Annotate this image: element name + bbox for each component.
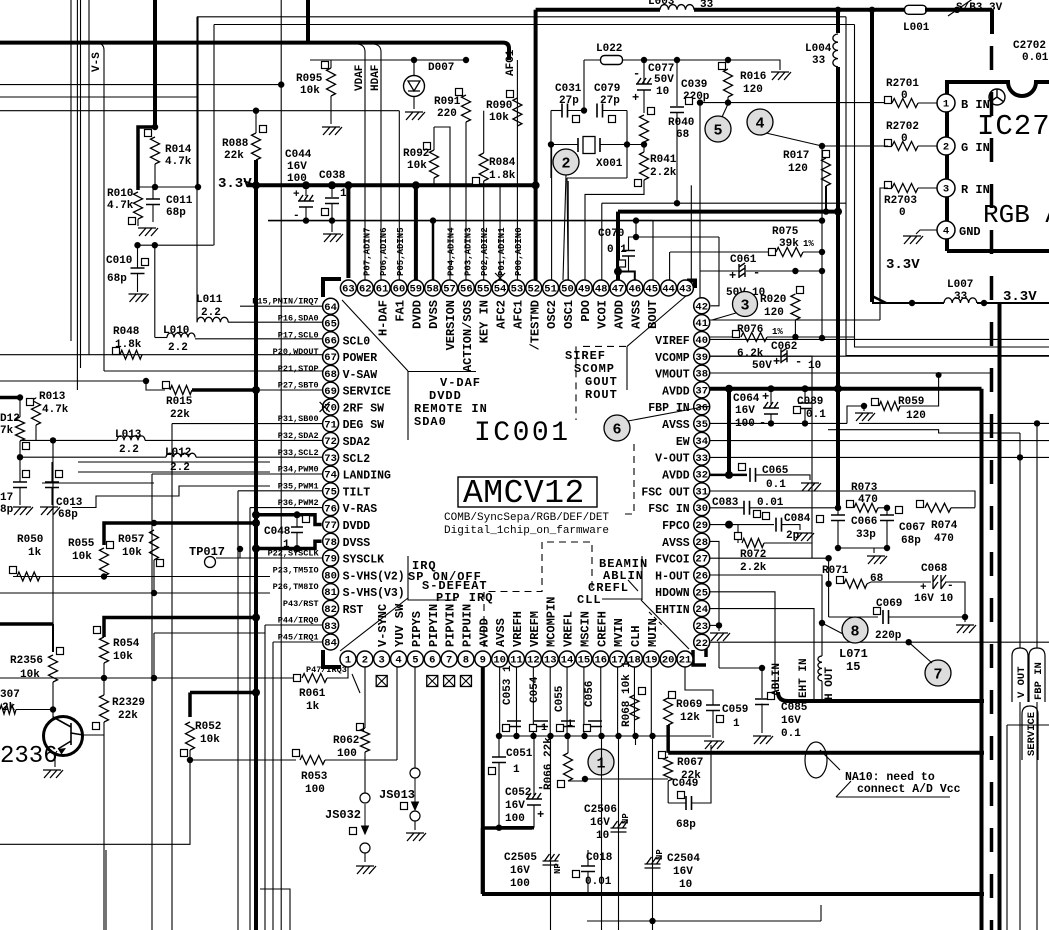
pin 56	[458, 280, 474, 296]
svg-text:2: 2	[561, 156, 570, 173]
svg-text:16V: 16V	[735, 405, 755, 417]
wire C066 bottom	[837, 521, 839, 549]
wire pin5 down	[414, 667, 416, 768]
resistor R084	[479, 153, 488, 181]
capacitor C066	[831, 515, 845, 521]
svg-text:-: -	[795, 355, 802, 369]
ground under C038	[323, 234, 343, 242]
ground IC27 pin4	[903, 236, 923, 244]
wire pin44 line	[670, 251, 718, 253]
wire x635 down	[635, 736, 637, 745]
wire net H-line y24	[214, 24, 855, 26]
capacitor C064	[763, 402, 779, 414]
junction x822 rail	[819, 217, 825, 223]
svg-text:69: 69	[324, 386, 337, 398]
no-connect X pin54	[495, 273, 505, 283]
wire AVSS rail y736	[499, 735, 711, 737]
junction G-IN x822	[819, 143, 825, 149]
svg-text:64: 64	[324, 302, 337, 314]
pin 25	[694, 584, 710, 600]
svg-text:1: 1	[340, 188, 347, 200]
wire C017 top	[19, 457, 21, 482]
leader NA10	[820, 750, 840, 770]
resistor R068	[630, 695, 639, 720]
svg-text:72: 72	[324, 436, 337, 448]
pin 9	[475, 651, 491, 667]
pin 17	[610, 651, 626, 667]
junction rail x636	[633, 217, 639, 223]
wire x190 down	[0, 760, 190, 844]
svg-text:10k: 10k	[20, 669, 40, 681]
resistor R092	[430, 150, 439, 178]
pin 42	[694, 298, 710, 314]
svg-text:P01,ADIN1: P01,ADIN1	[497, 227, 507, 276]
svg-text:C083: C083	[712, 497, 739, 509]
svg-text:120: 120	[906, 410, 926, 422]
svg-text:39: 39	[695, 352, 708, 364]
svg-text:V-SAW: V-SAW	[343, 369, 378, 382]
wire C038 gnd stub	[331, 221, 333, 232]
svg-text:VDAF: VDAF	[354, 65, 366, 91]
svg-text:R020: R020	[760, 294, 786, 306]
no-connect X pin70	[320, 402, 330, 412]
svg-text:R048: R048	[113, 326, 140, 338]
pin 15	[576, 651, 592, 667]
junction x822 bottom	[819, 335, 825, 341]
wire 3.3V to L007	[872, 302, 944, 304]
wire C011 top	[152, 187, 154, 199]
wire D007 bottom	[413, 97, 415, 110]
svg-text:EHTIN: EHTIN	[655, 604, 690, 617]
wire pin29 FPCO stub	[710, 524, 729, 526]
thick vertical x155	[153, 0, 157, 127]
svg-text:0.1: 0.1	[781, 728, 801, 740]
svg-text:50V: 50V	[654, 74, 674, 86]
wire to R2329	[103, 678, 105, 695]
pin 65	[323, 315, 339, 331]
wire X001 left	[551, 144, 578, 146]
wire net x854 to y347	[855, 25, 1049, 348]
junction y245 b	[152, 242, 158, 248]
thick 3V rail y10 mid	[694, 8, 906, 12]
svg-text:P32,SDA2: P32,SDA2	[278, 431, 319, 441]
callout 8	[842, 617, 868, 643]
jumper X-box pin 8	[460, 676, 471, 687]
callout 2	[553, 149, 579, 175]
resistor R059	[879, 402, 900, 411]
svg-text:40: 40	[695, 335, 708, 347]
junction y423 x1037	[1034, 420, 1040, 426]
connector pin 2 G IN	[937, 137, 955, 155]
wire y237 to pin42	[636, 236, 719, 238]
ground emitter Q2336	[43, 770, 63, 778]
wire C018 top	[587, 850, 589, 866]
pin 70	[323, 399, 339, 415]
wire pin39 left	[710, 355, 781, 357]
wire R075 left	[718, 251, 772, 253]
svg-text:PIPYIN: PIPYIN	[427, 604, 441, 647]
svg-text:LANDING: LANDING	[343, 470, 391, 483]
terminal square R088	[260, 126, 267, 133]
junction x700	[697, 99, 703, 105]
terminal square R040	[648, 108, 655, 115]
junction R020 R076	[792, 334, 798, 340]
wire R057 bottom	[153, 560, 155, 593]
svg-text:1k: 1k	[28, 547, 42, 559]
svg-text:78: 78	[324, 537, 337, 549]
svg-text:L004: L004	[805, 43, 832, 55]
svg-text:VIREF: VIREF	[655, 335, 690, 348]
capacitor C054	[534, 721, 548, 727]
pin 38	[694, 365, 710, 381]
wire gnd riser	[847, 406, 864, 423]
wire pin30 FSC IN line	[710, 507, 744, 509]
junction y187 a	[152, 184, 158, 190]
svg-text:C051: C051	[506, 748, 533, 760]
wire L012 left	[20, 456, 166, 458]
wire R013 bottom	[35, 425, 37, 440]
resistor R076	[741, 333, 767, 342]
terminal square C066	[817, 516, 824, 523]
junction y548 b	[884, 545, 890, 551]
svg-text:+: +	[729, 269, 736, 283]
junction rail	[598, 733, 604, 739]
junction rail x433	[430, 217, 436, 223]
svg-text:10: 10	[493, 655, 506, 667]
svg-text:10: 10	[596, 830, 609, 842]
svg-text:68p: 68p	[58, 509, 78, 521]
pin 37	[694, 382, 710, 398]
svg-text:DVDD: DVDD	[343, 520, 371, 533]
svg-text:L007: L007	[947, 279, 973, 291]
capacitor C011	[146, 199, 160, 205]
pin 2	[357, 651, 373, 667]
wire y709	[16, 709, 53, 711]
wire L022 left	[584, 59, 601, 61]
svg-text:3.3V: 3.3V	[886, 257, 920, 273]
pin 75	[323, 483, 339, 499]
wire HDOWN drop	[710, 592, 775, 692]
svg-text:2.2: 2.2	[168, 342, 188, 354]
wire pin64 line	[240, 305, 323, 307]
svg-text:47: 47	[612, 284, 625, 296]
wire C031 left	[551, 110, 562, 112]
junction C044 bus	[302, 181, 310, 189]
svg-text:S-VHS(V3): S-VHS(V3)	[343, 587, 405, 600]
wire C089 top	[804, 389, 806, 403]
IC corner bracket bottom-left	[323, 650, 341, 667]
wire pin 15 down	[583, 667, 585, 736]
svg-text:SYSCLK: SYSCLK	[343, 554, 385, 567]
svg-text:R068 10k 1: R068 10k 1	[621, 661, 633, 727]
pin 81	[323, 584, 339, 600]
svg-text:C2702: C2702	[1013, 40, 1046, 52]
svg-text:V-OUT: V-OUT	[655, 453, 690, 466]
leader BEAMIN block	[628, 580, 638, 591]
svg-text:100: 100	[305, 784, 325, 796]
inductor L001	[905, 5, 927, 14]
svg-text:connect A/D Vcc: connect A/D Vcc	[857, 783, 961, 796]
terminal square C018	[573, 871, 580, 878]
ground under C010	[129, 294, 149, 302]
thick 3V rail y10 left of L003	[536, 8, 660, 12]
wire pin 10 down	[499, 667, 501, 736]
svg-text:2.2k: 2.2k	[740, 562, 767, 574]
terminal square R075	[769, 249, 776, 256]
svg-text:P03,ADIN3: P03,ADIN3	[463, 227, 473, 276]
wire pin58 DVSS up	[432, 221, 435, 280]
svg-text:6: 6	[612, 422, 621, 439]
svg-text:R095: R095	[296, 73, 323, 85]
svg-text:C070: C070	[598, 228, 624, 240]
thick vertical x838 top	[836, 10, 840, 33]
pin 20	[660, 651, 676, 667]
wire vertical x80	[80, 0, 82, 368]
wire R2356 top	[52, 624, 54, 652]
wire x550 down	[550, 736, 552, 930]
wire pin69 line	[256, 389, 323, 391]
wire C084 right	[782, 525, 801, 530]
wire C013 bottom	[51, 488, 53, 506]
thick wire C048 bottom	[256, 547, 297, 551]
wire X001 to R040	[627, 144, 644, 146]
wire x154 riser	[153, 633, 155, 678]
leader callout 6	[628, 408, 700, 422]
svg-text:SERVICE: SERVICE	[343, 386, 391, 399]
svg-text:120: 120	[743, 84, 763, 96]
junction y423 a	[768, 420, 774, 426]
svg-text:470: 470	[858, 494, 878, 506]
wire vertical x214	[213, 25, 215, 246]
svg-text:C079: C079	[594, 83, 620, 95]
capacitor C055	[561, 721, 575, 727]
svg-text:ROUT: ROUT	[585, 388, 618, 402]
wire x719 down	[718, 642, 720, 668]
IC block V-DAF left edge	[407, 371, 409, 440]
annotation NA10 oval	[805, 742, 827, 778]
wire OSC1 to pin50	[567, 178, 568, 280]
wire C070 rail stub	[635, 221, 637, 237]
svg-text:AFC1: AFC1	[511, 300, 525, 329]
svg-text:10: 10	[808, 360, 821, 372]
thick x349 to pin63	[346, 185, 350, 278]
wire pin73 line	[196, 456, 323, 458]
svg-text:C085: C085	[781, 702, 808, 714]
svg-text:DVDD: DVDD	[410, 300, 424, 329]
svg-text:C069: C069	[876, 598, 902, 610]
capacitor C084	[776, 518, 782, 532]
thick bottom bus y894	[482, 892, 984, 896]
svg-text:10k: 10k	[407, 160, 427, 172]
wire R052 bottom	[189, 750, 191, 760]
junction R057 top	[151, 520, 157, 526]
terminal square R062	[357, 724, 364, 731]
wire pin4 gnd	[916, 230, 937, 234]
svg-text:6.2k: 6.2k	[737, 348, 764, 360]
wire R088 top	[255, 111, 257, 133]
svg-text:R067: R067	[677, 757, 703, 769]
wire x450 to pin57	[449, 150, 451, 280]
wire pin48 riser	[601, 203, 603, 280]
svg-text:AVSS: AVSS	[662, 419, 690, 432]
junction C077 top	[641, 57, 647, 63]
svg-text:43: 43	[679, 284, 692, 296]
wire pin31 FSC OUT loop	[710, 491, 975, 508]
terminal square R041	[635, 180, 642, 187]
terminal square JS013	[401, 803, 408, 810]
junction C048 top	[294, 511, 301, 518]
pin 44	[661, 280, 677, 296]
wire L013 left	[20, 439, 117, 441]
svg-text:R057: R057	[118, 534, 144, 546]
resistor R073	[854, 503, 878, 512]
svg-text:X001: X001	[596, 158, 623, 170]
leader callout 7	[909, 642, 932, 663]
wire pin44 riser	[669, 252, 671, 280]
wire pin34 EW line	[710, 440, 1049, 442]
junction rail	[581, 733, 587, 739]
pin 64	[323, 298, 339, 314]
svg-text:29: 29	[695, 520, 708, 532]
junction rail	[513, 733, 519, 739]
wire L010 left	[155, 337, 167, 339]
junction C068 C069	[962, 614, 968, 620]
pin 74	[323, 466, 339, 482]
ground under C011	[138, 228, 158, 236]
thick bus y753	[668, 751, 984, 755]
junction y212 x838	[834, 208, 842, 216]
wire R2356 bottom	[52, 682, 54, 710]
wire C038 top	[331, 185, 333, 197]
svg-text:56: 56	[460, 284, 473, 296]
wire y921	[587, 920, 821, 922]
svg-text:C053 1: C053 1	[502, 665, 514, 705]
junction L012 left	[17, 454, 23, 460]
ground C065	[801, 483, 821, 491]
wire x1020 feed	[1019, 433, 1021, 648]
svg-text:20: 20	[662, 655, 675, 667]
net flag S/B3 3V	[948, 0, 974, 16]
ground under JS013	[406, 833, 426, 841]
thick wire ABLIN y701	[778, 692, 984, 701]
svg-text:3.3V: 3.3V	[1003, 289, 1037, 305]
svg-text:67: 67	[324, 352, 337, 364]
svg-text:SCOMP: SCOMP	[574, 362, 615, 376]
wire R075 right	[803, 251, 822, 253]
wire EHTIN drop	[710, 609, 814, 701]
wire pin46 stub	[618, 272, 635, 281]
svg-text:R092: R092	[403, 148, 429, 160]
terminal square C067	[896, 507, 903, 514]
wire pin74 line	[152, 473, 323, 475]
wire JS032 bottom	[364, 853, 366, 862]
junction 3.3V x912	[909, 300, 915, 306]
thick wire y617	[104, 618, 256, 638]
pin 13	[542, 651, 558, 667]
capacitor C2505 NP hatch	[543, 854, 560, 865]
capacitor C068	[933, 575, 946, 589]
terminal square C039	[686, 98, 693, 105]
resistor R061	[302, 674, 327, 683]
wire base entry	[52, 710, 54, 719]
svg-text:R041: R041	[650, 154, 677, 166]
wire long vertical x281	[280, 0, 282, 930]
junction y398	[17, 394, 23, 400]
pin 10	[492, 651, 508, 667]
terminal square R053	[293, 750, 300, 757]
terminal square R054	[94, 627, 101, 634]
wire mesh y507	[72, 507, 96, 509]
callout 7	[925, 660, 951, 686]
thick wire to pin77	[297, 515, 322, 525]
svg-text:POWER: POWER	[343, 352, 378, 365]
junction x256 3.3V	[252, 181, 260, 189]
wire pin 19 down	[650, 667, 652, 736]
dashed block boundary SIREF	[575, 346, 577, 420]
svg-text:+: +	[773, 355, 780, 369]
svg-text:SDA0: SDA0	[414, 415, 447, 429]
svg-text:R2701: R2701	[886, 78, 919, 90]
svg-text:470: 470	[934, 533, 954, 545]
pin 22	[694, 634, 710, 650]
pin 33	[694, 449, 710, 465]
svg-text:COMB/SyncSepa/RGB/DEF/DET: COMB/SyncSepa/RGB/DEF/DET	[444, 512, 609, 524]
terminal square R069	[669, 692, 676, 699]
wire C079 right	[603, 110, 628, 112]
svg-text:33: 33	[812, 55, 826, 67]
svg-text:CLH: CLH	[629, 625, 643, 647]
svg-text:62: 62	[359, 284, 372, 296]
wire C077 top	[643, 60, 645, 84]
svg-text:AFC2: AFC2	[495, 300, 509, 329]
svg-text:PIPUIN: PIPUIN	[460, 604, 474, 647]
junction x618 y271	[614, 268, 622, 276]
resistor R088	[252, 133, 261, 160]
IC block CLL edge	[641, 556, 643, 600]
capacitor C079	[597, 104, 603, 118]
capacitor C069	[883, 610, 889, 624]
wire pin 16 down	[600, 667, 602, 736]
junction L007	[981, 300, 987, 306]
wire pin 17 down	[617, 667, 619, 736]
svg-text:C031: C031	[555, 83, 582, 95]
svg-text:FA1: FA1	[393, 300, 407, 322]
svg-text:9: 9	[480, 655, 486, 667]
junction x256 y515	[252, 511, 260, 519]
capacitor C077	[636, 78, 652, 90]
svg-text:R090: R090	[486, 100, 512, 112]
wire R054 bottom	[103, 663, 105, 678]
svg-text:CREFH: CREFH	[595, 611, 609, 647]
svg-text:16V: 16V	[781, 715, 801, 727]
junction y423 b	[802, 420, 808, 426]
junction x281 y85	[278, 81, 284, 87]
svg-text:/TESTMD: /TESTMD	[528, 300, 542, 350]
pin 3	[374, 651, 390, 667]
svg-text:P44/IRQ0: P44/IRQ0	[278, 616, 319, 626]
leader callout 3	[712, 313, 736, 320]
svg-text:33p: 33p	[856, 529, 876, 541]
inductor L011	[197, 317, 228, 322]
pin 59	[408, 280, 424, 296]
ground under D007	[405, 112, 425, 120]
wire y423 right	[859, 422, 1049, 424]
wire loop right lower	[626, 145, 628, 179]
svg-text:R069: R069	[676, 699, 702, 711]
wire pin68 line y371	[104, 370, 323, 372]
wire L007 right	[977, 302, 1049, 304]
wire y678	[104, 677, 154, 679]
